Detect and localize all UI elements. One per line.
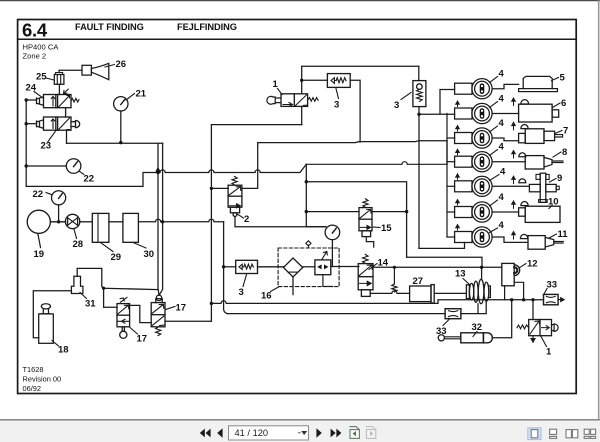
last-page button: [331, 429, 342, 438]
wire valve2 left port: [211, 187, 228, 189]
valve 4.3 ports: [481, 134, 483, 136]
valve 4.5 ports: [481, 182, 483, 184]
gauge 21: [114, 97, 128, 111]
wire bottom bus to row7: [419, 243, 465, 249]
wire valve17L feed: [104, 288, 117, 307]
valve 17R bottom cell arrow: [152, 316, 164, 325]
valve 1B exhaust arrow: [531, 336, 535, 342]
node trunk-bus158: [156, 171, 159, 174]
valve 4.1 outer ring: [472, 79, 492, 99]
trunk A upper: [211, 300, 543, 304]
svg-text:28: 28: [73, 239, 84, 250]
13 disc 3: [478, 279, 484, 303]
valve 15 body: [359, 208, 372, 231]
ladder stub row5: [447, 185, 455, 187]
horn 26 bell: [91, 63, 108, 79]
node bus-gauge22a: [25, 164, 28, 167]
valve 4.6 ports: [481, 208, 483, 210]
regulator arrows: [318, 265, 328, 269]
valve 2 solenoid pin: [233, 213, 237, 217]
svg-text:15: 15: [381, 223, 392, 234]
svg-text:30: 30: [144, 249, 155, 260]
valve 2 body: [228, 185, 242, 207]
left supply bus wire: [25, 100, 27, 186]
valve 14 solenoid block: [361, 290, 370, 297]
ladder stub row7: [447, 236, 455, 238]
valve 23 middle separator: [56, 117, 58, 130]
13 disc 2: [474, 281, 479, 302]
valve 1B cell split: [539, 320, 541, 336]
leader 22b: [46, 193, 52, 195]
node valve1-3a: [300, 79, 303, 82]
svg-text:13: 13: [455, 269, 466, 280]
leader 3c: [243, 275, 247, 287]
wire pump to valve 28: [50, 221, 65, 223]
indicator arrow 10: [512, 201, 516, 208]
valve 15 top cell arrow: [360, 209, 371, 218]
device 11 body: [528, 236, 545, 250]
valve 17L cell split: [117, 314, 130, 316]
wire valve1 bottom run: [211, 124, 301, 126]
valve 1B spring left: [517, 325, 529, 329]
wire regulator out: [331, 266, 359, 268]
wire y143 to twin bus: [67, 142, 163, 144]
leader 29: [101, 243, 114, 252]
wire box29 to box30: [109, 221, 123, 223]
node 306-181: [305, 180, 308, 183]
next-view icon (disabled): [366, 427, 375, 439]
valve 17L body: [117, 304, 130, 327]
valve 17R top cell arrow: [152, 304, 164, 313]
svg-text:29: 29: [111, 252, 122, 263]
device 7 step: [544, 131, 555, 140]
device 9 nub: [556, 186, 559, 189]
device 9 foot: [539, 200, 548, 203]
wire bus to connector 23: [26, 123, 36, 125]
vertical 306: [305, 164, 307, 226]
wire valve2 right port: [242, 145, 258, 188]
leader 3b: [401, 93, 411, 100]
leader 28: [74, 229, 77, 239]
component 25 inner lines: [57, 75, 60, 85]
wire bus to connector 24: [26, 99, 36, 101]
link valve24-valve23: [65, 108, 67, 117]
facing layout icon: [566, 430, 578, 438]
device 9 left arm: [529, 184, 540, 191]
wire gauge 22b stem: [58, 205, 60, 222]
row 2: pilot valve 4: [455, 101, 519, 124]
gauge 20 needle: [332, 228, 336, 233]
exhaust arrow 4.4: [456, 149, 460, 154]
wire y267 to comp 12: [373, 266, 482, 268]
component 12 dome: [514, 265, 519, 276]
svg-text:6: 6: [561, 98, 566, 109]
valve 2 solenoid block: [230, 207, 239, 213]
valve 4.1 inner ring: [475, 81, 490, 96]
dropdown tick: [299, 432, 301, 434]
trunk B down to ladder feed: [446, 141, 448, 164]
device 9 top-right block: [546, 174, 549, 179]
valve 15 cell split: [359, 218, 372, 220]
wire valve24 top to silencer 25: [58, 84, 60, 94]
valve 15 bottom cell arrow: [360, 225, 370, 229]
wire row2 out: [492, 113, 518, 115]
silencer 33M body: [445, 309, 461, 319]
leader 4.6: [490, 200, 498, 206]
valve 17L bottom cell arrow: [118, 319, 128, 323]
row 5: pilot valve 4: [455, 174, 529, 196]
trunk B y142.5: [258, 141, 447, 143]
prev-page button: [217, 428, 222, 438]
svg-text:23: 23: [41, 141, 52, 152]
wire row3 out: [492, 138, 518, 141]
wire 31 left to tank 18: [33, 291, 71, 338]
gauge 22b: [52, 191, 66, 205]
schematic border frame: [18, 20, 577, 394]
valve 24 right cell diagonal: [59, 96, 70, 108]
pump 19: [27, 210, 50, 233]
svg-text:2: 2: [244, 214, 249, 225]
node bus211-trunkA: [210, 302, 213, 305]
row 3: pilot valve 4: [455, 126, 519, 149]
wire valve15 right: [372, 211, 407, 213]
valve 1 top body: [281, 94, 308, 107]
svg-text:FEJLFINDING: FEJLFINDING: [177, 22, 237, 32]
svg-text:19: 19: [34, 249, 45, 260]
tank 18 neck: [41, 309, 50, 314]
component 12 dome core: [514, 267, 517, 273]
wire bus to gauge 22a: [26, 165, 66, 167]
valve 4.6 capsule: [480, 207, 485, 218]
wire 3b top feed: [418, 66, 420, 80]
ladder stub row3: [447, 137, 455, 139]
svg-text:22: 22: [33, 189, 44, 200]
node bus-valve24: [25, 98, 28, 101]
leader 16: [271, 287, 279, 292]
MIDDLE SECTION: [211, 125, 301, 322]
leader 8: [553, 152, 561, 157]
check valve 3c spring: [244, 264, 254, 269]
horn 26 neck: [82, 65, 91, 75]
valve 1B right cell arrow: [542, 326, 550, 330]
wire row6 out: [492, 211, 518, 213]
valve 15 solenoid block: [362, 231, 371, 237]
box 30: [123, 213, 138, 242]
coil 4.5: [455, 181, 472, 192]
valve 4.1 ports: [481, 85, 483, 87]
dropdown arrow: [301, 431, 307, 435]
valve 4.1 capsule: [480, 83, 485, 94]
device 8 body: [525, 156, 544, 169]
wire y257 from 407 to 12: [407, 257, 482, 267]
component 13 bellows flange: [466, 285, 469, 299]
ladder bus: [446, 114, 448, 238]
svg-text:4: 4: [499, 192, 505, 203]
valve 24 body: [44, 95, 72, 108]
exhaust arrow 4.3: [456, 126, 460, 131]
node gauge21-line: [119, 141, 122, 144]
exhaust arrow 4.2: [456, 101, 460, 106]
svg-text:T1628: T1628: [23, 365, 44, 374]
page number box: [229, 426, 309, 440]
wire valve1 bottom leg: [301, 106, 303, 124]
valve 4.4 ports: [481, 158, 483, 160]
svg-text:4: 4: [499, 142, 505, 153]
dome 7: [521, 125, 528, 129]
svg-text:41 / 120: 41 / 120: [235, 428, 269, 438]
svg-text:4: 4: [499, 69, 505, 80]
cylinder 32 body: [461, 333, 493, 343]
leader 2: [238, 215, 244, 219]
indicator arrow 8: [512, 151, 516, 158]
leader 4.5: [490, 175, 500, 181]
wire 25 to horn 26: [59, 70, 82, 72]
device 9 center disc: [540, 173, 546, 202]
wire 27 to 13: [434, 292, 466, 294]
check valve 3a spring: [336, 78, 346, 83]
dashed FRL box 16: [278, 248, 339, 287]
wire 3b bottom: [418, 107, 420, 249]
leader 18: [52, 341, 59, 347]
gauge 21 needle: [121, 100, 125, 105]
svg-text:33: 33: [436, 326, 447, 337]
cylinder 32 piston: [482, 333, 484, 343]
leader 4.3: [490, 126, 498, 132]
tank 18 cap: [41, 304, 50, 309]
svg-text:FAULT FINDING: FAULT FINDING: [75, 22, 144, 32]
indicator arrow 7: [512, 122, 516, 129]
svg-text:4: 4: [499, 94, 505, 105]
wire 31 top loop: [77, 268, 103, 288]
valve 2 top spring: [232, 176, 237, 185]
svg-text:1: 1: [546, 347, 552, 358]
svg-text:21: 21: [136, 89, 147, 100]
gauge 22a: [66, 159, 81, 174]
wire valve17R right port: [165, 320, 211, 322]
leader 26: [105, 65, 115, 68]
spring tail at 394: [392, 267, 397, 292]
leader 12: [519, 264, 526, 269]
svg-text:3: 3: [394, 100, 399, 111]
box 29 inner line: [97, 213, 99, 242]
regulator relief drain: [323, 275, 333, 287]
leader 11: [549, 234, 557, 238]
wire row1 out: [492, 84, 518, 88]
viewer right page edge: [598, 1, 600, 419]
pump 19 drain stub: [38, 233, 41, 247]
ladder stub row6: [447, 211, 455, 213]
coupling at valve 24 inlet: [37, 97, 43, 105]
leader 6: [553, 103, 561, 108]
wire valve28 to box29: [80, 221, 93, 223]
svg-text:Revision 00: Revision 00: [23, 375, 62, 384]
leader 3a: [336, 89, 339, 99]
device 6 body: [519, 104, 553, 122]
leader 13: [463, 279, 470, 285]
exhaust arrow 4.6: [456, 200, 460, 205]
valve 17L push button: [122, 327, 124, 331]
svg-text:22: 22: [84, 174, 95, 185]
filter diamond: [283, 258, 302, 277]
leader 4.2: [490, 102, 498, 108]
toolbar background: [0, 421, 600, 442]
valve 1B feed: [532, 300, 534, 320]
horn 5 body: [523, 76, 552, 88]
check valve 3a box: [327, 74, 350, 88]
auto drain symbol on box top: [306, 241, 311, 248]
component 31 body: [71, 276, 83, 293]
svg-text:Zone 2: Zone 2: [23, 52, 47, 61]
node bus-valve23: [25, 122, 28, 125]
indicator arrow 6: [512, 98, 516, 105]
twin bus right line: [159, 143, 162, 294]
valve 17R body: [151, 303, 165, 327]
valve 17L button knob: [120, 331, 127, 338]
leader 17L: [130, 328, 138, 335]
leader 30: [133, 243, 146, 249]
valve 4.4 outer ring: [472, 152, 492, 172]
valve 23 left cell arrow: [51, 119, 55, 129]
node 12-13: [480, 266, 483, 269]
node gauge22b-line: [57, 220, 60, 223]
svg-text:4: 4: [499, 220, 505, 231]
dome 6: [521, 100, 529, 104]
valve 4.5 outer ring: [472, 176, 492, 196]
node 32-trunk: [510, 298, 513, 301]
leader 4.1: [490, 77, 498, 83]
check valve 3b ball: [417, 84, 423, 90]
indicator arrow 11: [512, 232, 516, 239]
leader 4.7: [490, 228, 498, 233]
valve 4.3 inner ring: [475, 131, 490, 146]
svg-text:9: 9: [557, 173, 562, 184]
wire box30 right with hop: [138, 219, 223, 222]
wire row4 out: [492, 161, 525, 163]
coil 4.3: [455, 133, 472, 144]
device 10 port block: [519, 208, 526, 216]
vertical bus 211: [210, 125, 212, 322]
silencer 33R body: [544, 294, 559, 304]
leader 33R: [544, 289, 547, 295]
device 11 cone: [545, 237, 554, 247]
flow arrow on bus: [156, 168, 160, 172]
13 disc 1: [469, 283, 473, 300]
valve 1B left cell diagonal: [530, 321, 540, 334]
dome 10: [521, 202, 528, 206]
valve 4.7 capsule: [480, 232, 485, 243]
wire gauge to reg output: [331, 240, 333, 267]
twin bus left line: [158, 144, 159, 295]
valve 4.4 inner ring: [475, 154, 490, 169]
svg-text:3: 3: [239, 287, 244, 298]
hop right-port wire over trunk: [257, 143, 259, 145]
device 9 top-left block: [536, 174, 540, 179]
first-page button: [200, 429, 211, 438]
gauge 20 above regulator: [325, 225, 340, 240]
device 8 needle: [552, 161, 563, 163]
dome 9: [519, 179, 526, 183]
svg-text:5: 5: [560, 73, 566, 84]
wire row5 out: [492, 185, 529, 187]
coupling at valve 23 inlet: [37, 120, 43, 128]
wire bus to trunk step: [26, 173, 158, 187]
filter drain stem: [292, 277, 294, 295]
node 223-3c: [222, 265, 225, 268]
next-page button: [316, 428, 321, 438]
valve 2 cell split: [228, 195, 242, 197]
13 bottom leg: [477, 304, 479, 314]
svg-text:33: 33: [547, 280, 558, 291]
valve 4.7 outer ring: [472, 227, 492, 247]
cylinder 32 rod eye: [438, 335, 444, 341]
device 6 nub: [552, 110, 559, 117]
wire valve2 bottom exhaust: [235, 217, 326, 227]
svg-text:12: 12: [527, 259, 538, 270]
leader 5: [552, 78, 559, 81]
prev-view icon: [350, 427, 359, 439]
coil 4.2: [455, 108, 472, 119]
device 11 needle: [554, 241, 563, 243]
exhaust arrow 4.7: [456, 225, 460, 230]
coil 4.7: [455, 232, 472, 243]
wire valve1 top to supply: [302, 66, 419, 94]
svg-text:27: 27: [413, 276, 424, 287]
gauge 22a needle: [74, 162, 78, 167]
valve 14 top cell diagonal: [359, 265, 372, 276]
wire y181.6 to vertical 407: [306, 182, 406, 258]
silencer 33R outlet arrow: [558, 298, 564, 302]
leader 7: [555, 131, 562, 134]
svg-text:25: 25: [36, 72, 47, 83]
valve 28 (shutoff): [65, 214, 79, 228]
valve 1 right cell diagonal: [295, 95, 306, 106]
regulator box: [315, 260, 331, 275]
box 29: [92, 213, 109, 242]
svg-text:31: 31: [85, 299, 96, 310]
svg-text:6.4: 6.4: [22, 20, 48, 41]
valve 2 top cell arrow: [229, 187, 241, 196]
valve 4.3 capsule: [480, 133, 485, 144]
wire filter to regulator: [303, 266, 315, 268]
wire branch to check 3a: [302, 79, 328, 81]
valve 17L right port step: [130, 305, 152, 322]
trunk y171.5 with hops: [158, 164, 306, 172]
valve 4.5 inner ring: [475, 179, 490, 194]
check valve 3c box: [236, 260, 258, 273]
valve 23 body: [44, 117, 72, 130]
valve 4.2 outer ring: [472, 103, 492, 123]
single-page icon: [531, 430, 538, 438]
svg-text:4: 4: [499, 118, 505, 129]
indicator arrow 9: [512, 176, 516, 183]
valve 4.2 capsule: [480, 108, 485, 119]
svg-text:8: 8: [562, 147, 567, 158]
valve 4.7 ports: [481, 233, 483, 235]
valve 4.4 capsule: [480, 156, 485, 167]
valve 15 exhaust step: [366, 237, 373, 248]
wire 12 right leg to trunk: [514, 282, 523, 300]
leader 21: [126, 94, 135, 101]
check valve 3b spring: [417, 89, 423, 101]
leader 17R: [166, 307, 176, 310]
device 7 body: [525, 129, 544, 144]
elbow to gauge line: [306, 226, 326, 228]
coil 4.1: [455, 83, 472, 94]
svg-text:10: 10: [548, 197, 559, 208]
component 27 body: [410, 286, 431, 302]
AIR PREP + LOWER MIDDLE SECTION: [325, 225, 340, 266]
leader 1 top: [278, 89, 283, 95]
